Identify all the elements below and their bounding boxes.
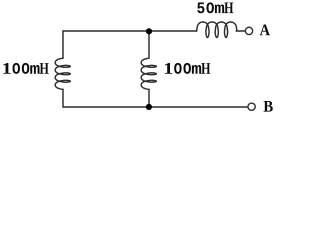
wire: top horizontal rail: [63, 30, 197, 32]
inductor L3 50mH (horizontal coil): [197, 22, 237, 38]
junction node top: [146, 28, 152, 34]
node label B: [264, 101, 273, 112]
wire: middle branch lower segment: [148, 89, 150, 107]
terminal B (open circle): [248, 103, 255, 110]
wire: bottom horizontal rail: [63, 106, 247, 108]
junction node bottom: [146, 104, 152, 110]
value label 100mH (middle inductor): [165, 63, 210, 74]
wire: left branch upper segment: [62, 31, 64, 58]
wire: coil exit to terminal A: [236, 30, 245, 32]
terminal A (open circle): [245, 27, 252, 34]
inductor L2 100mH (middle vertical coil): [141, 58, 156, 89]
wire: middle branch upper segment: [148, 31, 150, 58]
inductor L1 100mH (left vertical coil): [55, 58, 70, 89]
value label 50mH: [197, 2, 233, 13]
value label 100mH (left inductor): [3, 63, 48, 74]
node label A: [260, 25, 270, 36]
wire: left branch lower segment: [62, 89, 64, 107]
